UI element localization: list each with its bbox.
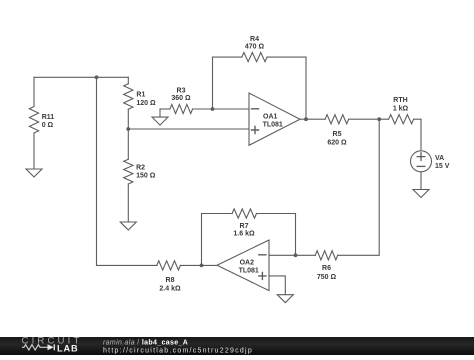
wire: feedback right vertical to OA1 output: [305, 57, 307, 119]
svg-text:1 kΩ: 1 kΩ: [393, 105, 409, 112]
svg-text:OA1: OA1: [263, 113, 278, 120]
ground below VA: [413, 190, 429, 198]
svg-text:360 Ω: 360 Ω: [171, 95, 191, 102]
svg-text:R2: R2: [136, 165, 145, 172]
svg-text:2.4 kΩ: 2.4 kΩ: [159, 285, 181, 292]
svg-text:1.6 kΩ: 1.6 kΩ: [233, 231, 255, 238]
svg-text:R8: R8: [166, 277, 175, 284]
svg-text:ramin.ala / lab4_case_A: ramin.ala / lab4_case_A: [103, 339, 188, 346]
wire: feedback left vertical: [212, 57, 214, 109]
svg-text:R11: R11: [42, 114, 55, 121]
op-amp OA2 TL081 (mirrored): [217, 240, 269, 291]
svg-text:15 V: 15 V: [435, 163, 450, 170]
resistor R6: [296, 251, 338, 281]
svg-text:http://circuitlab.com/c5ntru22: http://circuitlab.com/c5ntru229cdjp: [103, 347, 253, 354]
ground below OA2 + input: [277, 295, 293, 303]
svg-text:LAB: LAB: [57, 343, 79, 353]
footer bar: [0, 337, 474, 356]
resistor R7: [202, 209, 296, 238]
svg-text:R6: R6: [322, 265, 331, 272]
wire: to OA1 inverting input: [213, 108, 250, 110]
svg-text:620 Ω: 620 Ω: [327, 140, 347, 147]
svg-text:OA2: OA2: [240, 260, 255, 267]
ground below R11: [26, 169, 42, 177]
ground below R2: [120, 222, 136, 230]
svg-text:R5: R5: [333, 131, 342, 138]
op-amp OA1 TL081: [249, 93, 300, 145]
resistor R1: [124, 77, 156, 129]
svg-text:TL081: TL081: [263, 121, 283, 128]
wire: OA1 output to R5: [300, 118, 325, 120]
wire: long vertical branch down to R8: [96, 77, 98, 265]
voltage source VA 15V: [411, 151, 450, 172]
svg-text:120 Ω: 120 Ω: [136, 100, 156, 107]
svg-text:R7: R7: [240, 223, 249, 230]
ground at R3 left terminal: [152, 109, 168, 125]
svg-text:TL081: TL081: [239, 268, 259, 275]
wire: right vertical from R5/RTH junction down to R6: [338, 119, 380, 255]
resistor RTH: [389, 97, 421, 124]
resistor R11: [29, 77, 54, 169]
wire: to OA2 inverting input: [269, 254, 296, 256]
node: OA1 output junction: [304, 117, 308, 121]
wire: VA to ground: [420, 172, 422, 190]
svg-text:R3: R3: [177, 87, 186, 94]
node: junction of top wire and R8 branch: [95, 75, 99, 79]
node: OA1 inverting input junction: [211, 107, 215, 111]
node: OA2 output junction: [200, 264, 204, 268]
resistor R5: [325, 115, 389, 147]
wire: OA2 non-inverting input to ground: [269, 276, 285, 295]
resistor R4: [213, 36, 307, 62]
logo diode symbol: [43, 346, 48, 348]
resistor R8: [97, 261, 202, 293]
node A: junction R1/R2/opamp + input: [126, 127, 130, 131]
svg-text:750 Ω: 750 Ω: [317, 274, 337, 281]
logo resistor squiggle: [22, 345, 43, 350]
wire: node A to OA1 non-inverting input: [128, 128, 249, 130]
resistor R2: [124, 129, 156, 222]
wire: R7 right vertical: [295, 214, 297, 256]
resistor R3: [160, 87, 213, 113]
node: R5/RTH junction: [377, 117, 381, 121]
node: OA2 inverting input junction: [294, 253, 298, 257]
wire: RTH to VA source: [420, 119, 422, 151]
svg-text:R1: R1: [136, 92, 145, 99]
svg-text:470 Ω: 470 Ω: [245, 44, 265, 51]
svg-text:0 Ω: 0 Ω: [42, 122, 54, 129]
svg-text:R4: R4: [250, 36, 259, 43]
wire: top-left horizontal from R11 to R1: [34, 76, 128, 78]
wire: R7 left vertical to OA2 output node: [201, 214, 203, 266]
svg-text:RTH: RTH: [393, 97, 407, 104]
wire: node to OA2 output apex: [202, 264, 218, 266]
svg-text:150 Ω: 150 Ω: [136, 173, 156, 180]
svg-text:VA: VA: [435, 155, 444, 162]
